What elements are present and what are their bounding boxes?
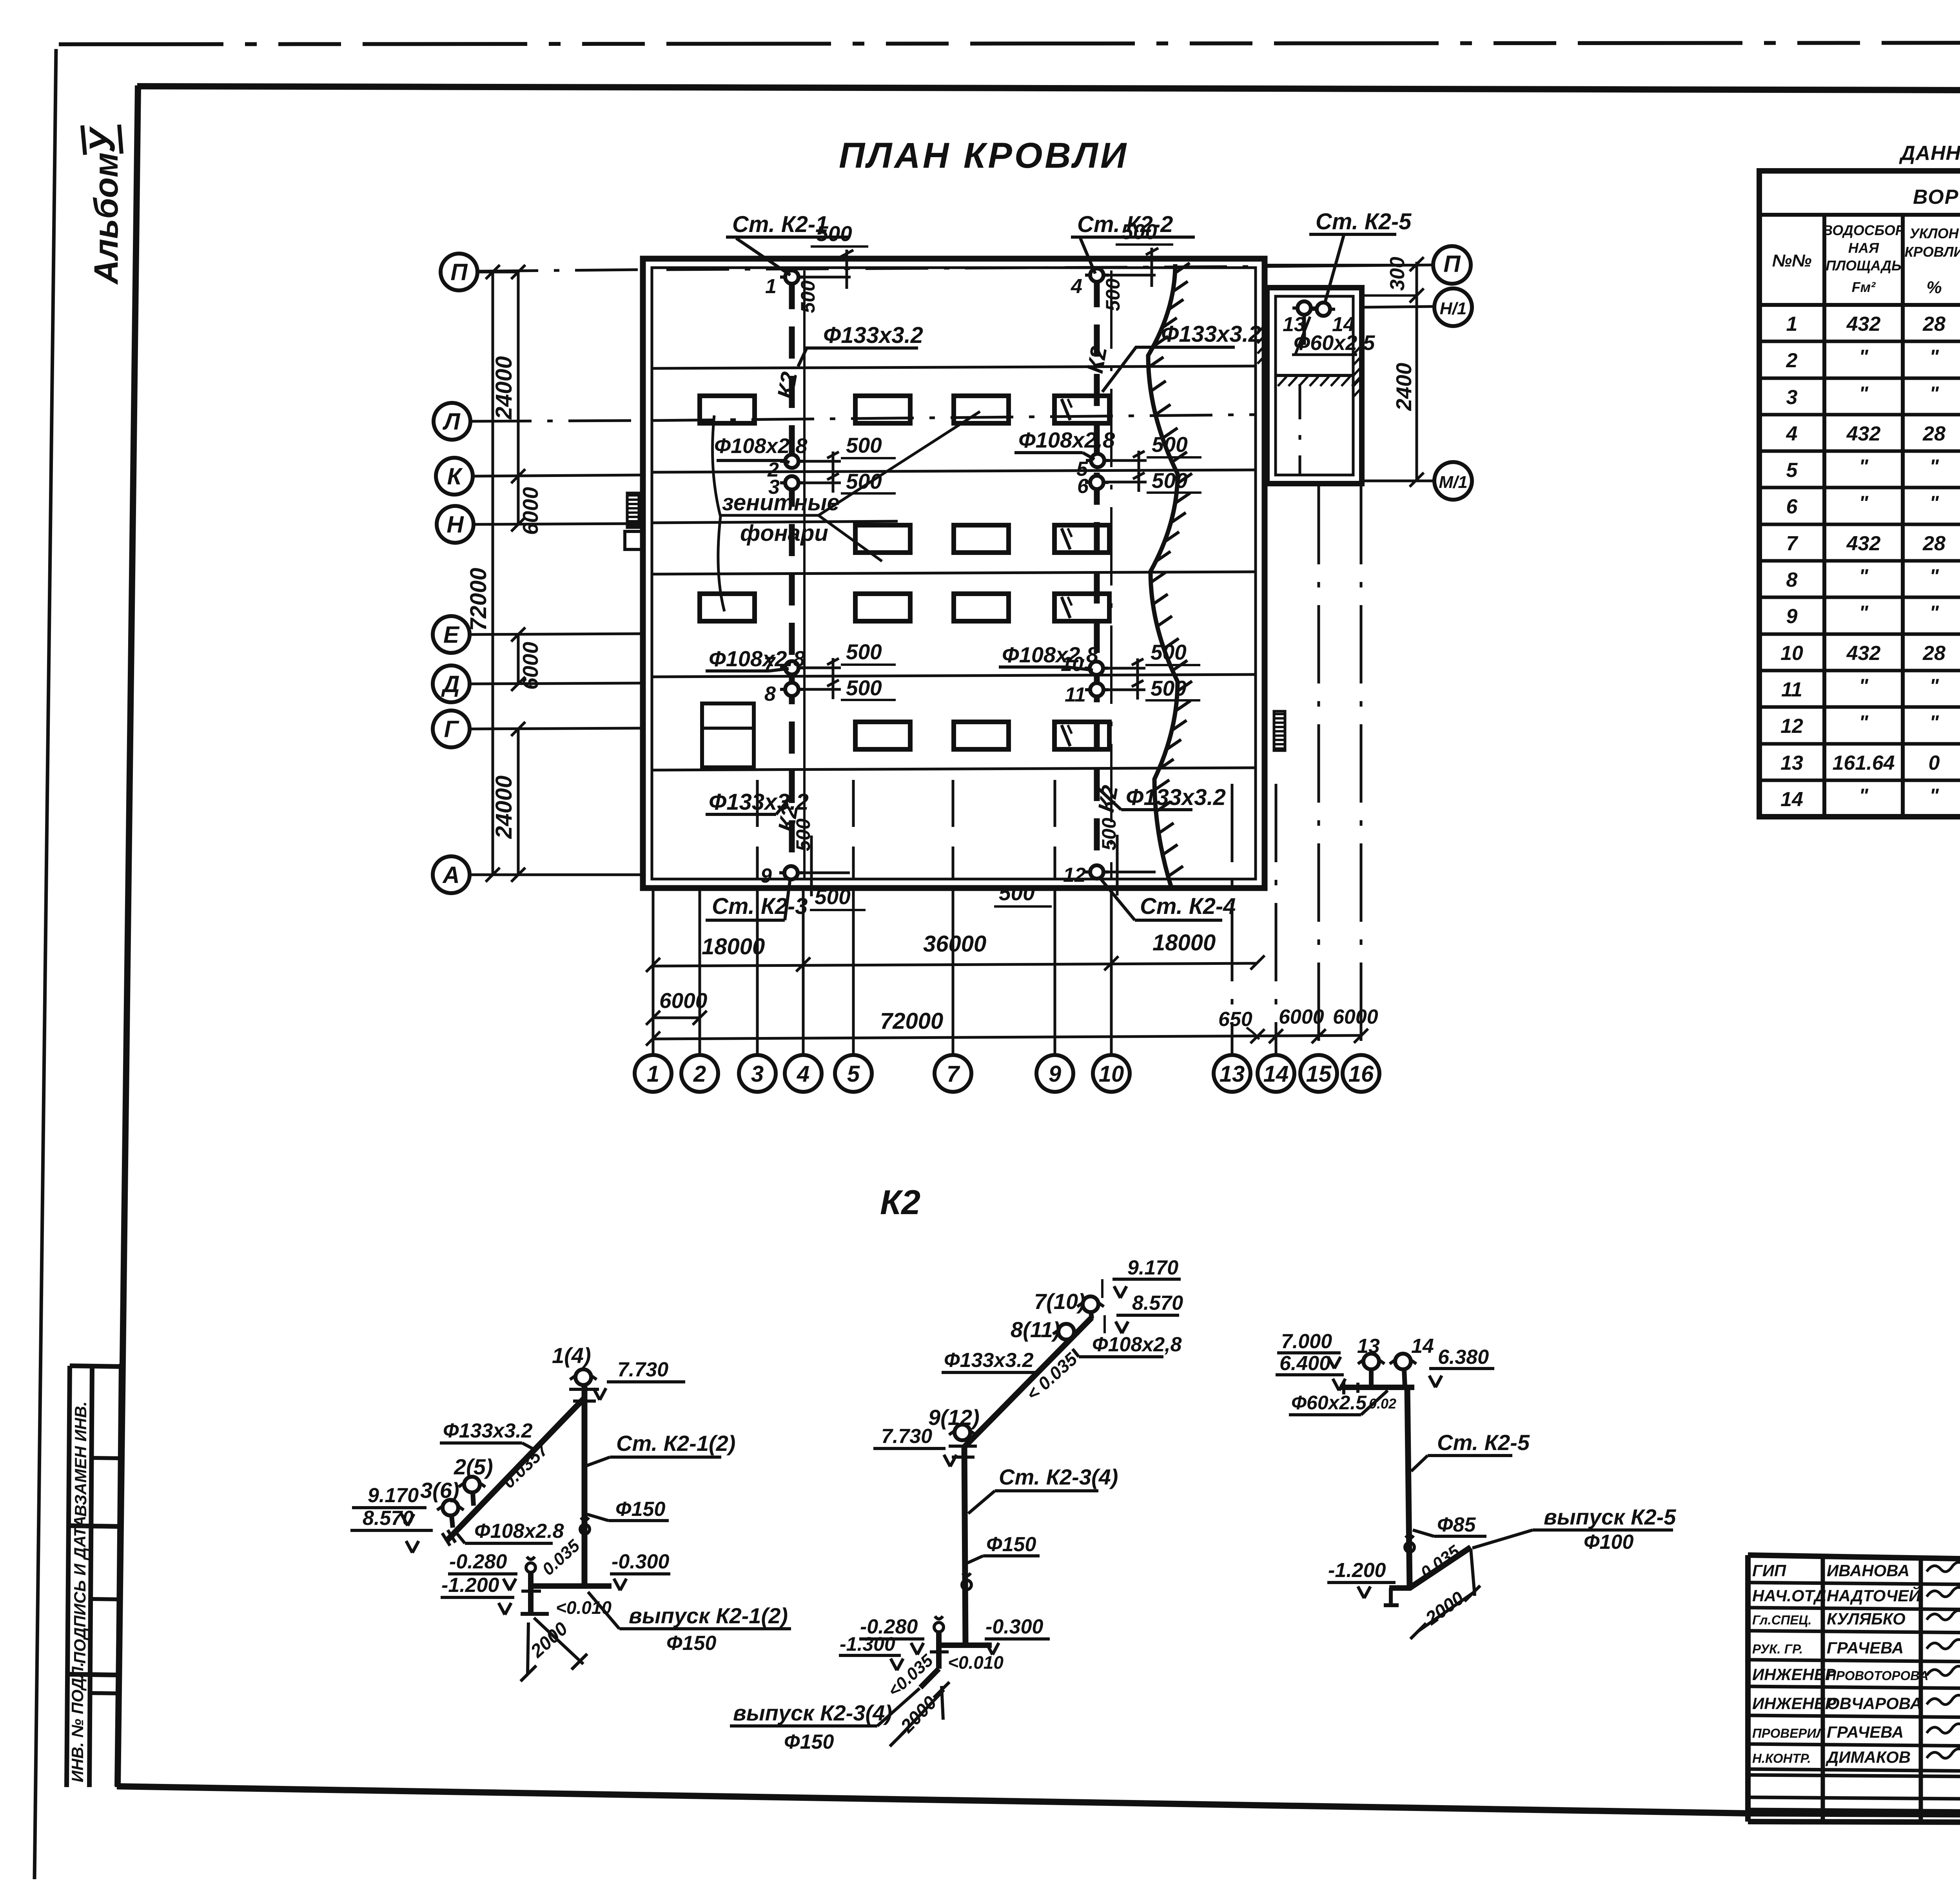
svg-text:Ф133х3.2: Ф133х3.2 [443, 1419, 533, 1442]
svg-text:72000: 72000 [880, 1008, 943, 1034]
svg-text:К: К [447, 463, 463, 489]
svg-text:Гл.СПЕЦ.: Гл.СПЕЦ. [1752, 1613, 1812, 1627]
drawing frame top [137, 86, 1960, 91]
strip cell dividers [70, 1366, 122, 1367]
title block outer [1748, 1555, 1960, 1565]
500 dimension marks [799, 460, 841, 463]
svg-text:выпуск К2-5: выпуск К2-5 [1544, 1505, 1676, 1529]
svg-text:500: 500 [797, 280, 819, 313]
svg-text:Ф133х3.2: Ф133х3.2 [1161, 321, 1261, 347]
svg-text:13: 13 [1357, 1335, 1380, 1358]
svg-text:500: 500 [1151, 676, 1187, 700]
svg-text:Ст. К2-3: Ст. К2-3 [712, 894, 808, 919]
svg-text:8: 8 [764, 683, 776, 705]
svg-text:36000: 36000 [923, 931, 986, 957]
svg-text:ПРОВОТОРОВА: ПРОВОТОРОВА [1827, 1668, 1929, 1683]
svg-text:24000: 24000 [491, 356, 517, 420]
svg-text:-1.200: -1.200 [441, 1574, 499, 1597]
svg-text:28: 28 [1922, 532, 1945, 555]
svg-text:К2: К2 [880, 1183, 920, 1222]
svg-text:НАДТОЧЕЙ: НАДТОЧЕЙ [1827, 1586, 1921, 1605]
personnel columns [1823, 1557, 1960, 1822]
svg-text:4: 4 [1786, 422, 1798, 445]
svg-text:8.570: 8.570 [363, 1507, 414, 1530]
revision symbol [962, 1580, 971, 1590]
svg-text:%: % [1926, 278, 1942, 297]
axis L dash-dot line [469, 421, 643, 421]
svg-text:500: 500 [792, 818, 814, 851]
svg-text:Ф150: Ф150 [784, 1731, 834, 1753]
drawing frame bottom [117, 1786, 1960, 1817]
svg-text:Ф108х2.8: Ф108х2.8 [714, 434, 807, 458]
svg-text:6000: 6000 [659, 988, 708, 1013]
svg-text:10: 10 [1099, 1061, 1124, 1087]
svg-text:": " [1859, 455, 1869, 477]
svg-text:11: 11 [1781, 678, 1802, 701]
svg-text:3: 3 [1786, 386, 1798, 409]
diagonal collector pipe [964, 1318, 1092, 1447]
svg-text:9.170: 9.170 [368, 1484, 419, 1507]
trap with seal [526, 1563, 535, 1572]
svg-text:К2: К2 [773, 370, 802, 401]
svg-text:ПЛАН КРОВЛИ: ПЛАН КРОВЛИ [839, 136, 1129, 176]
svg-text:13: 13 [1220, 1061, 1245, 1087]
svg-text:ГИП: ГИП [1752, 1561, 1786, 1580]
svg-text:161.64: 161.64 [1832, 752, 1895, 774]
svg-text:2400: 2400 [1392, 363, 1416, 411]
svg-text:Ф108х2,8: Ф108х2,8 [1092, 1333, 1182, 1356]
svg-text:Ст. К2-4: Ст. К2-4 [1140, 894, 1236, 919]
svg-text:1(4): 1(4) [552, 1343, 591, 1368]
svg-text:ИНВ. № ПОДЛ.: ИНВ. № ПОДЛ. [68, 1662, 87, 1782]
72000 dim [653, 1035, 1361, 1039]
svg-text:432: 432 [1846, 532, 1881, 555]
svg-text:5: 5 [1786, 459, 1798, 482]
svg-text:Ст. К2-5: Ст. К2-5 [1437, 1430, 1530, 1455]
row lines [1759, 340, 1960, 343]
svg-text:выпуск К2-1(2): выпуск К2-1(2) [629, 1603, 788, 1628]
svg-text:28: 28 [1922, 642, 1945, 665]
svg-text:ПОДПИСЬ И ДАТА: ПОДПИСЬ И ДАТА [71, 1516, 89, 1664]
left axis lines [473, 475, 643, 476]
personnel rows [1748, 1583, 1960, 1585]
funnel 2(5) [464, 1477, 480, 1492]
fire ladder left [627, 493, 639, 528]
svg-text:9: 9 [1049, 1061, 1061, 1087]
strip verticals [67, 1366, 70, 1787]
bottom horizontal pipe [531, 1583, 612, 1589]
svg-text:1: 1 [1786, 313, 1798, 335]
svg-text:Ф60х2.5: Ф60х2.5 [1291, 1392, 1367, 1414]
svg-text:500: 500 [846, 676, 882, 700]
svg-text:16: 16 [1348, 1061, 1374, 1087]
bottom dimension line 1 [653, 963, 1258, 966]
svg-text:500: 500 [1098, 818, 1120, 850]
svg-text:Ф108х2.8: Ф108х2.8 [1002, 642, 1099, 667]
svg-text:Ф60х2.5: Ф60х2.5 [1294, 331, 1375, 355]
svg-text:500: 500 [846, 433, 882, 457]
svg-text:ГРАЧЕВА: ГРАЧЕВА [1827, 1639, 1904, 1657]
svg-text:7.000: 7.000 [1281, 1330, 1332, 1353]
annex outer wall [1267, 288, 1362, 484]
axis H line inside [652, 521, 898, 523]
svg-text:К2: К2 [1082, 344, 1112, 375]
svg-text:8: 8 [1786, 569, 1798, 591]
svg-text:": " [1859, 565, 1869, 587]
svg-text:6000: 6000 [1279, 1006, 1324, 1028]
trap [934, 1622, 944, 1632]
svg-text:фонари: фонари [740, 520, 828, 546]
svg-text:1: 1 [765, 275, 777, 298]
svg-text:6: 6 [1077, 475, 1089, 498]
svg-text:500: 500 [1151, 640, 1187, 664]
svg-text:9: 9 [760, 865, 772, 887]
svg-text:У: У [82, 126, 122, 153]
svg-text:ВОДОСБОР: ВОДОСБОР [1822, 222, 1905, 238]
annex hatch under divider [1278, 377, 1287, 386]
svg-text:2(5): 2(5) [454, 1454, 493, 1479]
svg-text:Г: Г [444, 716, 460, 742]
bottom column axis lines [652, 890, 655, 1054]
pipe end ticks [442, 1530, 456, 1546]
svg-text:14: 14 [1780, 788, 1803, 811]
svg-text:-0.300: -0.300 [612, 1550, 670, 1573]
funnel 1(4) [575, 1369, 591, 1385]
svg-text:": " [1929, 492, 1939, 514]
svg-text:432: 432 [1846, 642, 1881, 665]
svg-text:28: 28 [1922, 313, 1945, 335]
svg-text:ДИМАКОВ: ДИМАКОВ [1826, 1748, 1911, 1766]
svg-text:500: 500 [1152, 432, 1188, 457]
column 4 axis line [803, 270, 806, 878]
2000 dim [898, 1690, 944, 1738]
svg-text:Ст. К2-5: Ст. К2-5 [1316, 209, 1412, 234]
riser pipe vertical [582, 1385, 588, 1586]
svg-text:": " [1859, 785, 1869, 807]
svg-text:7: 7 [1786, 532, 1798, 555]
riser K2-2 dashed pipe [1094, 275, 1100, 872]
annex inner wall [1276, 296, 1353, 475]
outer page left border [34, 49, 56, 1879]
svg-text:Ст. К2-2: Ст. К2-2 [1077, 212, 1173, 237]
svg-text:ИНЖЕНЕР: ИНЖЕНЕР [1752, 1694, 1837, 1713]
tall rect skylight left [702, 703, 754, 767]
svg-text:8(11): 8(11) [1011, 1317, 1060, 1342]
svg-text:Ф133х3.2: Ф133х3.2 [1126, 785, 1226, 810]
svg-text:Ф150: Ф150 [986, 1533, 1036, 1556]
svg-text:6.380: 6.380 [1438, 1346, 1489, 1369]
bottom stub [1389, 1585, 1411, 1591]
svg-text:6000: 6000 [518, 642, 543, 690]
svg-text:12: 12 [1780, 715, 1803, 738]
wavy break line [1148, 264, 1178, 887]
svg-text:НАЧ.ОТД: НАЧ.ОТД [1752, 1586, 1826, 1605]
funnel 13 [1363, 1354, 1379, 1369]
funnel 9(12) [955, 1425, 970, 1440]
svg-text:": " [1929, 383, 1939, 404]
svg-text:0: 0 [1929, 752, 1940, 774]
svg-text:ГРАЧЕВА: ГРАЧЕВА [1827, 1723, 1904, 1741]
svg-text:6.400: 6.400 [1279, 1352, 1330, 1375]
svg-text:А: А [442, 862, 459, 888]
bottom axis circles [635, 1055, 671, 1092]
svg-text:": " [1929, 602, 1939, 624]
svg-text:-0.280: -0.280 [449, 1550, 507, 1573]
svg-text:": " [1929, 785, 1939, 807]
svg-text:0.02: 0.02 [1369, 1396, 1396, 1412]
svg-text:Ф108х2.8: Ф108х2.8 [474, 1520, 564, 1543]
riser vertical [964, 1447, 965, 1645]
svg-text:14: 14 [1411, 1335, 1434, 1358]
svg-text:РУК. ГР.: РУК. ГР. [1752, 1642, 1803, 1656]
revision symbol [580, 1525, 590, 1534]
svg-text:Ф108х2.8: Ф108х2.8 [709, 646, 806, 671]
svg-text:Л: Л [442, 408, 461, 435]
axis P dash-dot line [475, 270, 643, 271]
svg-text:": " [1929, 455, 1939, 477]
svg-text:5: 5 [847, 1061, 860, 1087]
table outer frame [1759, 171, 1960, 817]
svg-text:9(12): 9(12) [928, 1405, 980, 1430]
svg-text:6000: 6000 [1333, 1006, 1378, 1028]
svg-text:500: 500 [1102, 278, 1124, 311]
svg-text:18000: 18000 [1152, 930, 1216, 955]
svg-text:П: П [450, 259, 468, 285]
svg-text:500: 500 [846, 469, 882, 493]
svg-text:4: 4 [1071, 275, 1082, 298]
svg-text:12: 12 [1063, 864, 1086, 886]
svg-text:Ст. К2-1(2): Ст. К2-1(2) [616, 1431, 735, 1456]
annex funnel pipe [1304, 309, 1317, 345]
svg-text:": " [1859, 346, 1869, 368]
svg-text:13: 13 [1780, 752, 1803, 774]
svg-text:500: 500 [846, 640, 882, 664]
outer page top dash-dot border [59, 42, 1960, 44]
right axis lines to circles [1362, 306, 1434, 307]
6000 dim [653, 1017, 700, 1019]
svg-text:24000: 24000 [491, 776, 517, 839]
hatch between building and annex [1258, 324, 1265, 333]
svg-text:ДАННЫЕ ПО РАСХОДАМ ДОЖДЕВЫХ: ДАННЫЕ ПО РАСХОДАМ ДОЖДЕВЫХ ВОД [1899, 142, 1960, 165]
svg-text:15: 15 [1306, 1061, 1332, 1087]
svg-text:Ф108х2.8: Ф108х2.8 [1018, 428, 1115, 452]
svg-text:№№: №№ [1772, 251, 1812, 270]
svg-text:": " [1859, 383, 1869, 404]
svg-text:432: 432 [1846, 313, 1881, 335]
svg-text:72000: 72000 [466, 568, 491, 631]
annex right wall hatch [1353, 346, 1361, 355]
riser K2-1 dashed pipe [789, 277, 795, 873]
annex axis dash line [1299, 384, 1301, 474]
svg-text:Ф85: Ф85 [1437, 1514, 1476, 1536]
svg-text:": " [1929, 675, 1939, 697]
svg-text:2: 2 [693, 1061, 706, 1087]
svg-text:Ст. К2-3(4): Ст. К2-3(4) [999, 1465, 1118, 1489]
svg-text:-1.200: -1.200 [1328, 1559, 1386, 1582]
svg-text:432: 432 [1846, 422, 1881, 445]
annex divider [1276, 374, 1353, 377]
svg-text:": " [1929, 711, 1939, 733]
svg-text:<0.010: <0.010 [948, 1652, 1004, 1673]
funnel 14 [1395, 1354, 1411, 1369]
funnel 8(11) [1058, 1324, 1074, 1340]
funnel 7(10) [1083, 1296, 1098, 1312]
svg-text:КРОВЛИ: КРОВЛИ [1905, 244, 1960, 260]
svg-text:Ф133х3.2: Ф133х3.2 [823, 323, 923, 348]
svg-text:4: 4 [797, 1061, 809, 1087]
svg-text:ПЛОЩАДЬ: ПЛОЩАДЬ [1826, 257, 1901, 274]
svg-text:ОВЧАРОВА: ОВЧАРОВА [1827, 1694, 1922, 1713]
left margin stamp strip [67, 1364, 122, 1787]
outlet diagonal [1410, 1547, 1471, 1588]
fire ladder right [1274, 711, 1285, 750]
svg-text:выпуск К2-3(4): выпуск К2-3(4) [733, 1700, 892, 1725]
svg-text:11: 11 [1065, 683, 1086, 706]
2000 dim [1418, 1591, 1475, 1631]
svg-text:Н.КОНТР.: Н.КОНТР. [1752, 1751, 1811, 1766]
svg-text:Д: Д [441, 671, 459, 697]
header row lines [1759, 213, 1960, 217]
svg-text:2: 2 [1786, 349, 1798, 372]
left dimension lines [492, 272, 494, 875]
drawing frame left [118, 85, 138, 1786]
svg-text:": " [1859, 492, 1869, 514]
svg-text:500: 500 [1152, 468, 1188, 493]
svg-text:500: 500 [999, 881, 1035, 905]
svg-text:Ф150: Ф150 [666, 1632, 716, 1655]
svg-text:9: 9 [1786, 605, 1798, 628]
svg-text:Ф150: Ф150 [615, 1498, 665, 1521]
svg-text:28: 28 [1922, 422, 1945, 445]
outlet diagonal [920, 1669, 939, 1688]
svg-text:П: П [1443, 251, 1461, 277]
svg-text:-1.300: -1.300 [840, 1633, 895, 1655]
svg-text:": " [1859, 602, 1869, 624]
axis letter circles [441, 254, 477, 290]
svg-text:Ф100: Ф100 [1584, 1531, 1633, 1554]
svg-text:500: 500 [815, 885, 851, 909]
svg-text:9.170: 9.170 [1127, 1256, 1178, 1279]
svg-text:": " [1859, 675, 1869, 697]
svg-text:М/1: М/1 [1439, 473, 1467, 492]
right 300/2400 dims [1416, 262, 1418, 482]
svg-text:6: 6 [1786, 495, 1798, 518]
horizontal collector [1340, 1385, 1414, 1390]
svg-text:Альбом: Альбом [87, 152, 125, 285]
svg-text:10: 10 [1780, 642, 1803, 665]
svg-text:УКЛОН: УКЛОН [1909, 225, 1959, 241]
svg-text:7: 7 [947, 1061, 960, 1087]
riser vertical [1407, 1387, 1410, 1588]
svg-text:": " [1929, 346, 1939, 368]
svg-text:Ф133х3.2: Ф133х3.2 [944, 1349, 1034, 1372]
svg-text:8.570: 8.570 [1132, 1292, 1183, 1314]
svg-text:КУЛЯБКО: КУЛЯБКО [1827, 1610, 1906, 1628]
svg-text:ИВАНОВА: ИВАНОВА [1827, 1561, 1909, 1580]
building outer wall [643, 259, 1265, 888]
svg-text:18000: 18000 [702, 934, 765, 959]
svg-text:Н/1: Н/1 [1440, 299, 1466, 318]
svg-text:1: 1 [647, 1061, 659, 1087]
svg-text:Ст. К2-1: Ст. К2-1 [732, 212, 828, 237]
svg-text:Е: Е [443, 622, 460, 648]
skylight rectangles (zenith lanterns) [700, 396, 755, 423]
svg-text:3: 3 [751, 1061, 764, 1087]
svg-text:14: 14 [1263, 1061, 1289, 1087]
svg-text:ПРОВЕРИЛ: ПРОВЕРИЛ [1752, 1726, 1826, 1740]
revision symbol [1405, 1543, 1414, 1552]
svg-text:300: 300 [1386, 257, 1409, 291]
bottom pipe [939, 1642, 992, 1648]
album label: Альбом V [82, 125, 125, 285]
svg-text:Fм²: Fм² [1852, 279, 1876, 295]
column 10 axis line [1110, 270, 1112, 878]
svg-text:7.730: 7.730 [617, 1358, 668, 1381]
roof slope lines [652, 366, 1256, 368]
svg-text:Н: Н [446, 511, 464, 538]
column lines [1822, 215, 1826, 817]
svg-text:ИНЖЕНЕР: ИНЖЕНЕР [1752, 1665, 1837, 1684]
roof drain funnels [785, 270, 799, 284]
2000 dim [534, 1618, 583, 1664]
break line hatching [1175, 263, 1190, 273]
building inner wall line [652, 268, 1256, 879]
svg-text:": " [1859, 711, 1869, 733]
svg-text:6000: 6000 [518, 487, 543, 535]
svg-text:ВОРОНКА ВОДОСТОЧНАЯ: ВОРОНКА ВОДОСТОЧНАЯ [1913, 186, 1960, 208]
svg-text:-0.300: -0.300 [985, 1615, 1044, 1638]
svg-text:3(6): 3(6) [420, 1478, 459, 1503]
svg-text:7(10): 7(10) [1034, 1289, 1085, 1314]
svg-text:7.730: 7.730 [881, 1425, 932, 1448]
svg-text:НАЯ: НАЯ [1848, 240, 1879, 256]
flange ticks below funnel 1 [569, 1389, 599, 1401]
svg-text:": " [1929, 565, 1939, 587]
roof collector diagonal pipe [447, 1398, 584, 1540]
svg-text:ВЗАМЕН ИНВ.: ВЗАМЕН ИНВ. [71, 1401, 90, 1517]
funnel 3(6) [443, 1500, 458, 1515]
